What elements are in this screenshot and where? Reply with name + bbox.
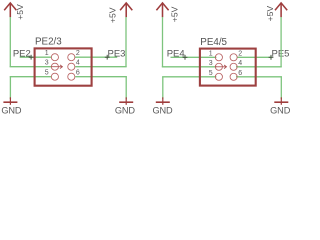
ground symbol (bottom-left of right block) <box>156 97 170 105</box>
pin 4 circle <box>68 63 75 70</box>
svg-text:GND: GND <box>115 105 136 115</box>
svg-text:+5V: +5V <box>15 4 25 20</box>
svg-text:1: 1 <box>209 50 213 57</box>
label origin cross PE2 <box>29 55 34 60</box>
svg-text:4: 4 <box>76 60 80 67</box>
supply +5V symbol (top-left) <box>4 3 16 17</box>
svg-text:4: 4 <box>238 60 242 67</box>
svg-text:PE2: PE2 <box>13 49 31 60</box>
wire row2 left to pin 3 of PE4/5 <box>162 66 217 68</box>
svg-text:3: 3 <box>45 60 49 67</box>
pin 2 circle (PE4/5) <box>230 54 237 61</box>
pin 3 direction arrow (PE4/5) <box>215 65 226 69</box>
wire net PE2 to pin 1 <box>20 56 52 58</box>
svg-text:1: 1 <box>45 50 49 57</box>
pin 4 circle (PE4/5) <box>230 63 237 70</box>
label origin cross PE5 <box>269 55 274 60</box>
wire row2 left to pin 3 <box>10 66 52 68</box>
svg-text:GND: GND <box>270 105 291 115</box>
pin 6 circle (PE4/5) <box>230 73 237 80</box>
svg-text:+5V: +5V <box>107 7 117 23</box>
wire GND up to row3 (left rail bottom) <box>9 77 11 99</box>
wire row2 right to pin 4 of PE4/5 <box>236 66 282 68</box>
svg-text:2: 2 <box>238 50 242 57</box>
wire +5V right rail down to row2 <box>125 17 127 67</box>
supply +5V symbol (top-right of left block) <box>120 3 132 17</box>
label origin cross PE3 <box>105 55 110 60</box>
pin 3 direction arrow <box>51 65 62 69</box>
svg-text:+5V: +5V <box>265 6 275 22</box>
wire row3 right to pin 6 of PE4/5 <box>236 76 282 78</box>
wire row2 right to pin 4 <box>75 66 127 68</box>
wire net PE3 from pin 2 <box>75 56 117 58</box>
ground symbol (bottom-right of left block) <box>119 97 133 105</box>
label origin cross PE4 <box>183 55 188 60</box>
pin 3 circle (PE4/5) <box>215 63 222 70</box>
svg-text:+5V: +5V <box>169 6 179 22</box>
pin 1 circle (PE4/5) <box>215 54 222 61</box>
wire row3 left to pin 5 <box>10 76 52 78</box>
pin 5 circle <box>51 73 58 80</box>
wire net PE4 to pin 1 of PE4/5 <box>171 56 217 58</box>
svg-text:PE4/5: PE4/5 <box>200 37 227 48</box>
ground symbol (bottom-right) <box>274 97 288 105</box>
pin 6 circle <box>68 73 75 80</box>
wire GND right rail up to row3 (right block) <box>280 77 282 99</box>
ground symbol (bottom-left) <box>3 97 17 105</box>
svg-text:GND: GND <box>1 105 22 115</box>
wire net PE5 from pin 2 of PE4/5 <box>237 56 271 58</box>
svg-text:6: 6 <box>76 70 80 77</box>
svg-text:5: 5 <box>209 70 213 77</box>
pin 5 circle (PE4/5) <box>215 73 222 80</box>
wire GND up to row3 (right block left rail) <box>162 77 164 99</box>
svg-text:PE4: PE4 <box>167 49 185 60</box>
pin 1 circle <box>51 54 58 61</box>
wire +5V down to row2 (left rail top) <box>9 17 11 67</box>
supply +5V symbol (top-left of right block) <box>156 3 168 17</box>
wire +5V down to row2 (right block left rail) <box>162 17 164 67</box>
pin 2 circle <box>68 54 75 61</box>
svg-text:2: 2 <box>76 50 80 57</box>
wire GND right rail up to row3 <box>125 77 127 99</box>
svg-text:5: 5 <box>45 70 49 77</box>
wire row3 left to pin 5 of PE4/5 <box>162 76 216 78</box>
svg-text:PE2/3: PE2/3 <box>35 37 62 48</box>
wire +5V right rail down to row2 (right block) <box>280 17 282 67</box>
svg-text:GND: GND <box>152 105 173 115</box>
connector body PE2/3 (pin header 2x3) <box>35 48 92 85</box>
wire row3 right to pin 6 <box>75 76 127 78</box>
pin 3 circle <box>51 63 58 70</box>
supply +5V symbol (top-right) <box>275 3 287 17</box>
svg-text:6: 6 <box>238 70 242 77</box>
connector body PE4/5 (pin header 2x3) <box>200 49 256 86</box>
svg-text:PE3: PE3 <box>108 49 126 60</box>
svg-text:3: 3 <box>209 60 213 67</box>
